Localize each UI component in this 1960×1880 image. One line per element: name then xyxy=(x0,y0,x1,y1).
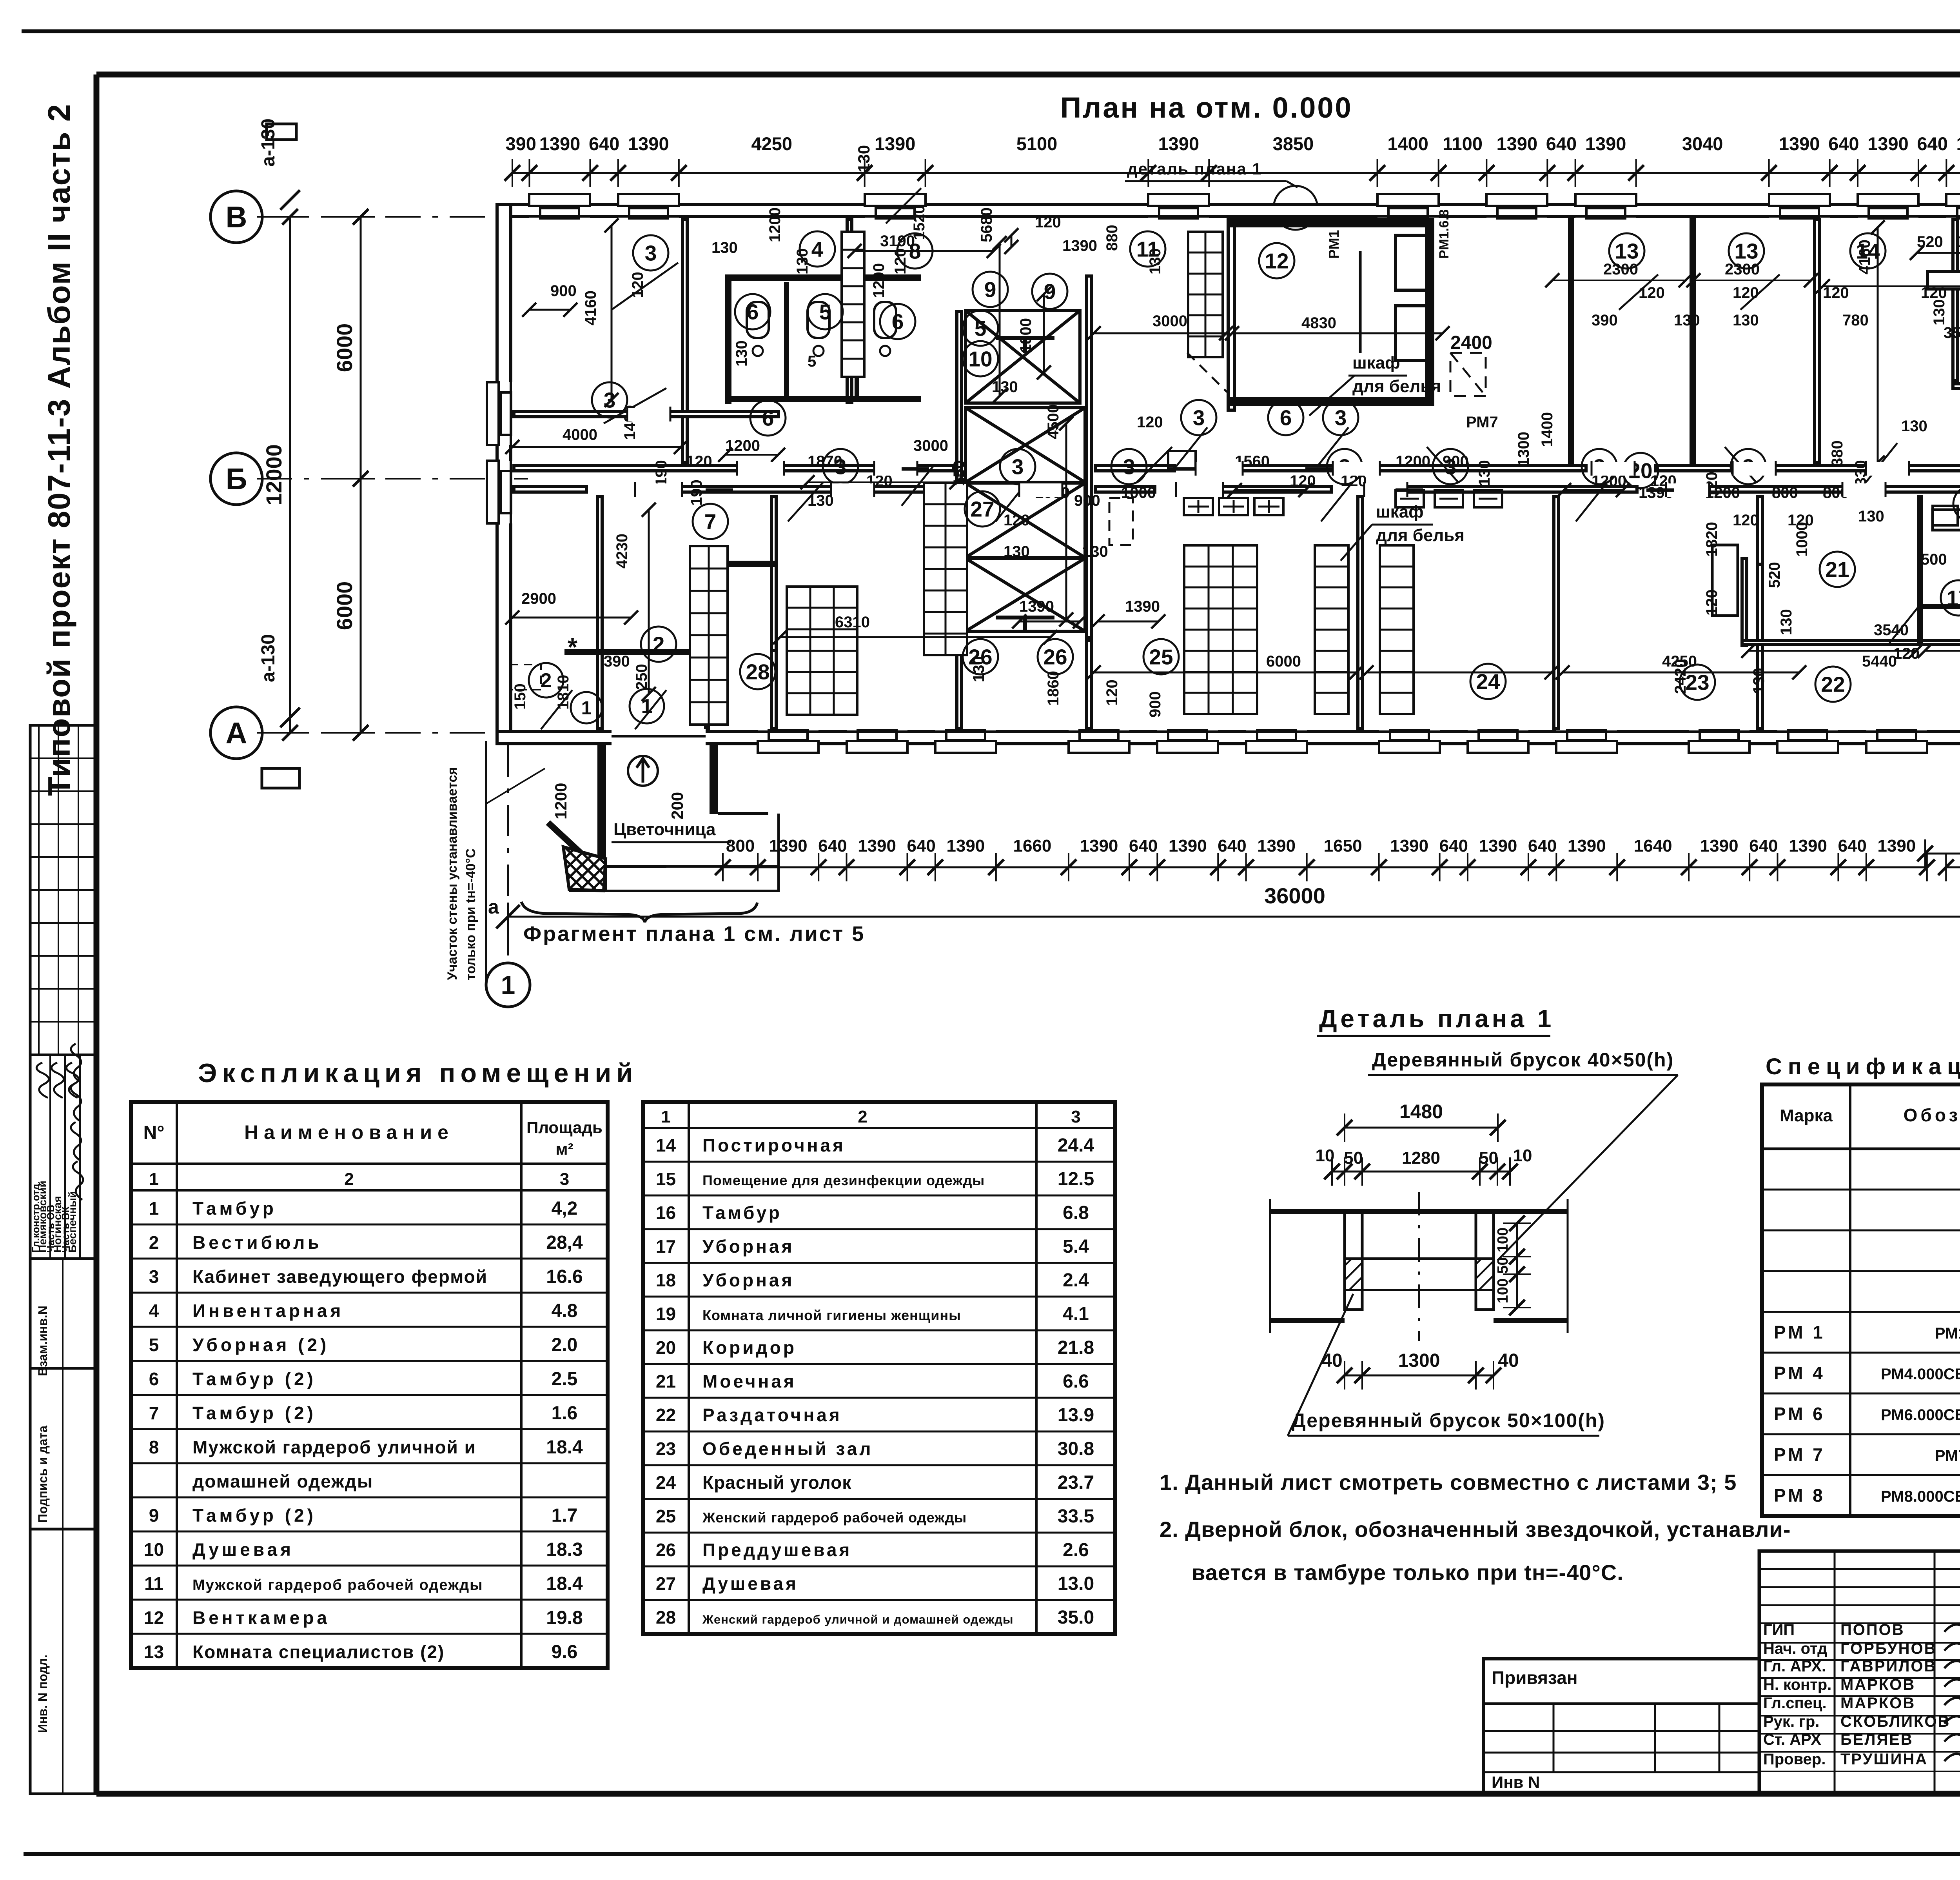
svg-text:РМ 8: РМ 8 xyxy=(1774,1485,1825,1506)
svg-text:Площадь: Площадь xyxy=(526,1118,603,1137)
wall room3 lower xyxy=(514,411,779,417)
drawing frame xyxy=(96,72,1960,78)
svg-text:120: 120 xyxy=(1823,284,1849,302)
svg-text:3000: 3000 xyxy=(1152,312,1187,330)
dim 36000 xyxy=(508,916,1960,918)
svg-text:130: 130 xyxy=(794,248,811,274)
axis line Bmid xyxy=(257,478,528,480)
exterior wall bottom xyxy=(497,732,1960,744)
svg-text:РМ6.000СБ (для tн=-30°С): РМ6.000СБ (для tн=-30°С) xyxy=(1881,1406,1960,1424)
window xyxy=(1069,729,1129,753)
svg-text:1: 1 xyxy=(501,970,515,999)
svg-text:130: 130 xyxy=(1750,668,1768,694)
svg-text:130: 130 xyxy=(1674,312,1700,329)
svg-text:1390: 1390 xyxy=(1080,836,1118,856)
svg-text:26: 26 xyxy=(656,1540,676,1560)
curly brace xyxy=(521,902,757,922)
exterior wall left xyxy=(497,204,511,744)
room 15 bottom wall xyxy=(1953,384,1960,389)
svg-text:Гл.спец.: Гл.спец. xyxy=(1763,1695,1827,1712)
svg-text:1390: 1390 xyxy=(1497,133,1538,154)
svg-text:Ст. АРХ: Ст. АРХ xyxy=(1763,1731,1821,1748)
svg-text:640: 640 xyxy=(818,836,847,856)
leader xyxy=(1341,525,1372,561)
svg-text:Тамбур (2): Тамбур (2) xyxy=(192,1369,316,1389)
opening lines xyxy=(1362,1257,1476,1260)
door openings top band xyxy=(627,408,670,421)
room label 2 xyxy=(641,627,676,662)
explication table 1 xyxy=(131,1102,608,1668)
svg-text:Коридор: Коридор xyxy=(702,1337,797,1358)
svg-text:120: 120 xyxy=(1290,472,1316,490)
svg-text:9: 9 xyxy=(984,277,996,302)
svg-text:24.4: 24.4 xyxy=(1058,1135,1094,1156)
room label 3 xyxy=(1327,449,1362,484)
svg-text:640: 640 xyxy=(907,836,935,856)
room label 10 xyxy=(963,341,998,376)
svg-text:3: 3 xyxy=(560,1170,569,1189)
svg-text:640: 640 xyxy=(1828,133,1859,154)
svg-text:28: 28 xyxy=(746,659,769,684)
shaft top tee xyxy=(996,336,1054,340)
svg-text:130: 130 xyxy=(992,378,1018,396)
svg-text:Кабинет заведующего фермой: Кабинет заведующего фермой xyxy=(192,1266,488,1287)
svg-text:10: 10 xyxy=(1513,1146,1532,1165)
room label 3 xyxy=(1323,400,1358,435)
room label 5 xyxy=(963,311,998,346)
room 17/18 walls xyxy=(1918,497,1922,643)
svg-text:1: 1 xyxy=(149,1170,158,1189)
svg-text:Деревянный брусок 40×50(h): Деревянный брусок 40×50(h) xyxy=(1372,1049,1674,1071)
svg-text:17: 17 xyxy=(656,1236,676,1257)
svg-text:2400: 2400 xyxy=(1450,332,1492,353)
svg-text:5.4: 5.4 xyxy=(1063,1236,1089,1257)
svg-text:900: 900 xyxy=(1074,492,1100,509)
svg-text:Обеденный зал: Обеденный зал xyxy=(702,1439,873,1459)
svg-text:4: 4 xyxy=(811,237,824,261)
svg-text:1300: 1300 xyxy=(1398,1350,1440,1371)
svg-text:130: 130 xyxy=(1858,508,1884,525)
exterior wall top xyxy=(497,204,1960,216)
svg-text:4.8: 4.8 xyxy=(552,1301,578,1321)
svg-text:1200: 1200 xyxy=(870,263,887,298)
svg-text:27: 27 xyxy=(656,1573,676,1594)
room 12 vent chamber walls xyxy=(1227,218,1434,227)
svg-text:Постирочная: Постирочная xyxy=(702,1135,846,1155)
svg-text:РМ7: РМ7 xyxy=(1466,414,1498,431)
asterisk door dashed xyxy=(510,665,541,690)
svg-text:1390: 1390 xyxy=(1867,133,1909,154)
axis circle B xyxy=(211,453,262,505)
svg-text:4160: 4160 xyxy=(582,291,599,325)
svg-text:3040: 3040 xyxy=(1682,133,1723,154)
svg-text:РМ1: РМ1 xyxy=(1326,230,1342,259)
svg-text:25: 25 xyxy=(656,1506,676,1526)
shkaf label underlines xyxy=(1348,375,1407,377)
svg-text:9: 9 xyxy=(149,1505,159,1526)
svg-text:520: 520 xyxy=(1766,562,1783,588)
detail centerline xyxy=(1418,1192,1420,1341)
porch angled wall xyxy=(548,823,597,868)
svg-text:РМ4.000СБ (для tн=-20°С): РМ4.000СБ (для tн=-20°С) xyxy=(1881,1366,1960,1383)
room label 12 xyxy=(1259,243,1294,278)
right jamb block xyxy=(1476,1212,1494,1310)
svg-text:28: 28 xyxy=(656,1607,676,1628)
cross-braced shaft xyxy=(965,311,1080,403)
svg-text:520: 520 xyxy=(1917,233,1943,251)
svg-text:1860: 1860 xyxy=(1045,671,1062,706)
svg-text:380: 380 xyxy=(1829,440,1846,467)
svg-text:21: 21 xyxy=(656,1371,676,1391)
svg-text:6: 6 xyxy=(892,309,904,334)
svg-text:Душевая: Душевая xyxy=(192,1539,294,1560)
top dimension chain xyxy=(512,172,1960,174)
svg-text:3: 3 xyxy=(149,1266,159,1287)
svg-text:18.4: 18.4 xyxy=(546,1437,583,1458)
window xyxy=(1575,194,1636,219)
svg-text:Пемяковский: Пемяковский xyxy=(36,1181,49,1253)
svg-text:1000: 1000 xyxy=(1793,522,1811,557)
svg-text:1650: 1650 xyxy=(1324,836,1362,856)
svg-text:120: 120 xyxy=(629,272,646,298)
svg-text:1400: 1400 xyxy=(1539,412,1556,447)
svg-text:16.6: 16.6 xyxy=(546,1266,583,1287)
svg-text:130: 130 xyxy=(1931,299,1948,325)
svg-text:3850: 3850 xyxy=(1273,133,1314,154)
room label 3 xyxy=(1731,449,1766,484)
room label 3 xyxy=(633,235,668,271)
axis circle A xyxy=(211,707,262,759)
window xyxy=(1148,194,1209,219)
svg-text:1390: 1390 xyxy=(946,836,985,856)
room label 28 xyxy=(740,654,775,689)
window xyxy=(1468,729,1528,753)
flower bed hatched xyxy=(563,847,606,891)
svg-text:1300: 1300 xyxy=(1515,432,1532,467)
window xyxy=(865,194,926,219)
corridor washbasin row xyxy=(1184,498,1213,515)
svg-text:35.0: 35.0 xyxy=(1058,1607,1094,1628)
room label 5 xyxy=(808,294,843,329)
svg-text:13: 13 xyxy=(1615,239,1639,263)
svg-text:10: 10 xyxy=(144,1539,164,1560)
entrance door opening xyxy=(612,729,706,746)
svg-text:10: 10 xyxy=(968,347,992,371)
svg-text:а-130: а-130 xyxy=(258,634,279,682)
cross-braced shaft xyxy=(965,408,1085,482)
room label 1 xyxy=(571,692,602,723)
svg-text:1800: 1800 xyxy=(1017,318,1034,353)
svg-text:130: 130 xyxy=(733,340,750,367)
svg-text:ТРУШИНА: ТРУШИНА xyxy=(1840,1751,1928,1768)
left strip signature squiggles xyxy=(71,1044,81,1082)
room label 13 xyxy=(1609,233,1644,269)
svg-text:13: 13 xyxy=(1734,239,1758,263)
explication table 2 xyxy=(643,1102,1115,1634)
svg-text:7: 7 xyxy=(704,509,717,534)
svg-text:Нач. отд: Нач. отд xyxy=(1763,1640,1827,1657)
svg-text:3: 3 xyxy=(645,241,657,265)
svg-text:Марка: Марка xyxy=(1780,1106,1833,1125)
window xyxy=(1866,729,1927,753)
svg-text:Наименование: Наименование xyxy=(244,1121,454,1143)
left jamb block xyxy=(1345,1212,1362,1310)
svg-text:120: 120 xyxy=(1703,589,1720,616)
shaft bottom tee xyxy=(996,616,1054,619)
column mark rect top xyxy=(267,124,296,140)
svg-text:30.8: 30.8 xyxy=(1058,1439,1094,1459)
svg-text:2: 2 xyxy=(858,1107,867,1126)
svg-text:190: 190 xyxy=(653,460,670,486)
svg-text:4830: 4830 xyxy=(1301,314,1336,332)
svg-text:Деревянный брусок 50×100(h): Деревянный брусок 50×100(h) xyxy=(1292,1410,1605,1431)
axis 1 dash line xyxy=(507,745,509,963)
svg-text:16: 16 xyxy=(656,1202,676,1223)
svg-text:1: 1 xyxy=(581,698,592,719)
room label 13 xyxy=(1729,233,1764,269)
svg-text:3: 3 xyxy=(1193,405,1205,430)
svg-text:Женский гардероб уличной и дом: Женский гардероб уличной и домашней одеж… xyxy=(702,1613,1014,1626)
svg-text:120: 120 xyxy=(1893,645,1920,662)
svg-text:3190: 3190 xyxy=(880,233,915,250)
svg-text:1870: 1870 xyxy=(808,453,842,470)
svg-text:для белья: для белья xyxy=(1376,526,1465,545)
svg-text:1.6: 1.6 xyxy=(552,1403,578,1424)
window xyxy=(529,194,590,219)
in-plan dim lines xyxy=(529,309,570,311)
room 21 walls xyxy=(1742,558,1747,645)
svg-text:18.4: 18.4 xyxy=(546,1573,583,1594)
detail lower dims xyxy=(1345,1375,1494,1377)
svg-text:40: 40 xyxy=(1498,1350,1519,1371)
svg-text:Цветочница: Цветочница xyxy=(613,820,716,839)
bottom dimension chain xyxy=(723,866,1927,868)
svg-text:Провер.: Провер. xyxy=(1763,1751,1826,1768)
svg-text:3: 3 xyxy=(1012,454,1024,479)
dashed closet room 25 xyxy=(1109,498,1133,545)
svg-text:Тамбур: Тамбур xyxy=(192,1198,277,1219)
svg-text:а: а xyxy=(488,896,499,918)
svg-text:шкаф: шкаф xyxy=(1376,502,1424,521)
svg-text:28,4: 28,4 xyxy=(546,1232,583,1253)
svg-text:1390: 1390 xyxy=(1169,836,1207,856)
svg-text:1200: 1200 xyxy=(1396,453,1430,470)
detail sub dims xyxy=(1332,1171,1510,1173)
svg-text:3: 3 xyxy=(1123,454,1135,479)
title block name table xyxy=(1759,1551,1960,1794)
svg-text:2300: 2300 xyxy=(1603,261,1638,278)
svg-text:1390: 1390 xyxy=(1789,836,1827,856)
svg-text:N°: N° xyxy=(143,1123,165,1143)
svg-text:120: 120 xyxy=(1004,512,1030,529)
svg-text:Взам.инв.N: Взам.инв.N xyxy=(36,1306,50,1376)
svg-text:ГАВРИЛОВ: ГАВРИЛОВ xyxy=(1840,1658,1936,1675)
svg-text:Обозначение: Обозначение xyxy=(1904,1105,1960,1125)
window xyxy=(1777,729,1838,753)
svg-text:640: 640 xyxy=(1838,836,1866,856)
svg-text:640: 640 xyxy=(1528,836,1557,856)
svg-text:1390: 1390 xyxy=(1390,836,1428,856)
window xyxy=(1556,729,1617,753)
svg-text:2300: 2300 xyxy=(1725,261,1760,278)
svg-text:1390: 1390 xyxy=(1700,836,1739,856)
detail vertical dims xyxy=(1516,1223,1518,1308)
svg-text:50: 50 xyxy=(1344,1148,1363,1168)
svg-text:900: 900 xyxy=(1147,691,1164,717)
svg-text:900: 900 xyxy=(1443,453,1469,470)
svg-text:640: 640 xyxy=(1218,836,1246,856)
svg-text:1000: 1000 xyxy=(1121,484,1156,501)
svg-text:120: 120 xyxy=(1103,679,1121,706)
svg-text:1640: 1640 xyxy=(1634,836,1672,856)
svg-text:1: 1 xyxy=(661,1107,670,1126)
room label 18 xyxy=(1953,486,1960,521)
svg-text:4230: 4230 xyxy=(613,534,631,569)
svg-text:4: 4 xyxy=(149,1301,159,1321)
room label 27 xyxy=(965,491,1000,527)
svg-text:18.3: 18.3 xyxy=(546,1539,583,1560)
svg-text:12.5: 12.5 xyxy=(1058,1169,1094,1190)
svg-text:5440: 5440 xyxy=(1862,653,1897,670)
svg-text:2420: 2420 xyxy=(1672,659,1689,694)
svg-text:1200: 1200 xyxy=(552,783,570,819)
detail wall plan xyxy=(1270,1209,1568,1214)
small tees corridor xyxy=(1168,467,1196,471)
svg-text:1390: 1390 xyxy=(1158,133,1200,154)
vent frames PM xyxy=(1396,235,1427,290)
svg-text:Гл. АРХ.: Гл. АРХ. xyxy=(1763,1658,1826,1675)
svg-text:В: В xyxy=(226,201,247,234)
page top edge xyxy=(22,29,1960,33)
svg-text:РМ 7: РМ 7 xyxy=(1774,1444,1825,1465)
svg-text:100: 100 xyxy=(1495,1228,1511,1252)
svg-text:6: 6 xyxy=(149,1369,159,1389)
room label 26 xyxy=(1038,639,1073,674)
svg-text:Женский гардероб рабочей одежд: Женский гардероб рабочей одежды xyxy=(702,1509,967,1526)
svg-text:21.8: 21.8 xyxy=(1058,1337,1094,1358)
svg-text:50: 50 xyxy=(1495,1257,1511,1273)
svg-text:200: 200 xyxy=(668,792,686,819)
vent dashed duct xyxy=(1450,353,1486,396)
svg-text:22: 22 xyxy=(656,1405,676,1425)
svg-text:Инв. N подл.: Инв. N подл. xyxy=(36,1655,50,1733)
svg-text:800: 800 xyxy=(726,836,755,856)
svg-text:640: 640 xyxy=(1546,133,1577,154)
svg-text:2900: 2900 xyxy=(521,590,556,607)
svg-text:2.5: 2.5 xyxy=(552,1369,578,1390)
svg-text:а-130: а-130 xyxy=(258,118,279,167)
svg-text:13: 13 xyxy=(144,1642,164,1662)
leader xyxy=(1309,376,1354,416)
room label 2 xyxy=(529,663,563,698)
room label 26 xyxy=(963,639,998,674)
corridor lower wall xyxy=(514,487,586,492)
svg-text:1520: 1520 xyxy=(911,205,928,240)
locker shelving grid xyxy=(1188,232,1223,357)
svg-text:1390: 1390 xyxy=(875,133,916,154)
svg-text:домашней одежды: домашней одежды xyxy=(192,1471,373,1491)
svg-text:1200: 1200 xyxy=(766,207,784,242)
svg-text:190: 190 xyxy=(688,480,705,506)
svg-text:6: 6 xyxy=(762,406,774,430)
svg-text:3: 3 xyxy=(1071,1107,1080,1126)
svg-text:1390: 1390 xyxy=(858,836,896,856)
svg-text:800: 800 xyxy=(1772,484,1798,501)
partition walls bottom band xyxy=(597,497,602,728)
svg-text:для белья: для белья xyxy=(1352,377,1441,396)
svg-text:18: 18 xyxy=(656,1270,676,1290)
svg-text:Б: Б xyxy=(226,463,247,496)
porch right edge xyxy=(777,814,780,891)
vertical dimension chain xyxy=(289,217,291,733)
room label 14 xyxy=(1850,233,1886,269)
svg-text:2.0: 2.0 xyxy=(552,1335,578,1355)
room label 4 xyxy=(800,231,835,267)
locker shelving grid xyxy=(1184,545,1257,714)
column mark rect bottom xyxy=(262,768,299,788)
svg-text:120: 120 xyxy=(686,453,712,470)
svg-text:4.1: 4.1 xyxy=(1063,1304,1089,1324)
svg-text:1660: 1660 xyxy=(1013,836,1051,856)
svg-text:Инв N: Инв N xyxy=(1492,1773,1540,1791)
svg-text:120: 120 xyxy=(1639,284,1665,302)
toilet fixtures xyxy=(747,302,769,338)
porch steps xyxy=(606,866,779,891)
window xyxy=(1769,194,1830,219)
svg-text:Спецификация изделий для ве: Спецификация изделий для венткамеры xyxy=(1766,1054,1960,1079)
svg-text:36000: 36000 xyxy=(1264,883,1325,908)
detail dim 1480 xyxy=(1345,1127,1498,1129)
svg-text:*: * xyxy=(568,633,577,661)
svg-text:А: А xyxy=(226,717,247,750)
svg-text:2: 2 xyxy=(149,1232,159,1253)
svg-text:390: 390 xyxy=(604,653,630,670)
svg-text:130: 130 xyxy=(1476,460,1493,486)
svg-text:МАРКОВ: МАРКОВ xyxy=(1840,1676,1915,1693)
svg-text:РМ 1: РМ 1 xyxy=(1774,1322,1825,1342)
svg-text:План на отм. 0.000: План на отм. 0.000 xyxy=(1060,91,1353,124)
window xyxy=(758,729,818,753)
strip grid top xyxy=(38,725,40,1055)
locker shelving grid xyxy=(787,587,857,715)
svg-text:3: 3 xyxy=(1335,405,1347,430)
svg-text:7: 7 xyxy=(149,1403,159,1423)
svg-text:6: 6 xyxy=(1280,405,1292,430)
dashed line room11 xyxy=(1187,353,1227,392)
svg-text:3000: 3000 xyxy=(913,437,948,454)
svg-text:24: 24 xyxy=(1476,669,1500,694)
svg-text:ГОРБУНОВ: ГОРБУНОВ xyxy=(1840,1640,1936,1657)
svg-text:640: 640 xyxy=(589,133,619,154)
window xyxy=(1377,194,1439,219)
svg-text:Инвентарная: Инвентарная xyxy=(192,1301,344,1321)
svg-text:6000: 6000 xyxy=(1266,653,1301,670)
svg-text:500: 500 xyxy=(1921,551,1947,568)
svg-text:1390: 1390 xyxy=(1877,836,1916,856)
svg-text:Фрагмент плана 1 см. лист 5: Фрагмент плана 1 см. лист 5 xyxy=(523,922,865,946)
svg-text:19: 19 xyxy=(656,1304,676,1324)
svg-text:13.9: 13.9 xyxy=(1058,1405,1094,1426)
room label 3 xyxy=(1000,449,1035,484)
room label 22 xyxy=(1815,667,1851,702)
axis line B xyxy=(257,216,536,218)
svg-text:1390: 1390 xyxy=(1479,836,1517,856)
svg-text:2: 2 xyxy=(344,1170,354,1189)
svg-text:11: 11 xyxy=(144,1573,163,1594)
room label 11 xyxy=(1130,231,1165,267)
svg-text:1390: 1390 xyxy=(628,133,669,154)
svg-text:РМ1.6.8: РМ1.6.8 xyxy=(1437,209,1452,259)
